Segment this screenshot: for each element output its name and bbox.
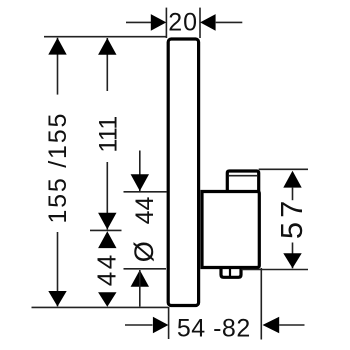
- svg-text:44: 44: [92, 252, 122, 286]
- dim 44 (lower chain): bottom arrow: [98, 292, 116, 307]
- svg-text:57: 57: [274, 197, 309, 239]
- extension line handle bottom, right side: [242, 269, 309, 271]
- bottom dim 54-82: left extension line: [168, 307, 170, 339]
- bottom dim 54-82: left tail: [125, 324, 153, 326]
- short tick at handle centre (chain junction): [90, 229, 122, 231]
- dim 111: top arrow: [98, 38, 116, 55]
- svg-text:20: 20: [168, 9, 198, 37]
- dim Ø44: upper arrow (points down): [131, 174, 149, 191]
- dim 111: bottom arrow: [98, 213, 116, 230]
- top dim 20: right tail: [216, 21, 243, 23]
- bottom dim 54-82: right tail: [279, 324, 304, 326]
- select button on top of handle: [227, 171, 258, 192]
- notch divider: [229, 268, 231, 278]
- dim 155/155: line upper segment: [57, 38, 59, 95]
- dim 155/155: top arrow: [48, 38, 66, 55]
- dim 57: upper arrow (points up): [283, 171, 301, 188]
- dim 155/155: line lower segment: [57, 232, 59, 306]
- svg-text:155 /155: 155 /155: [44, 112, 72, 224]
- extension line select button top, right side: [259, 168, 308, 170]
- extension line top-left (plate top): [44, 36, 167, 38]
- dim 57: upper segment: [292, 187, 294, 200]
- bottom dim 54-82: right extension line: [260, 268, 262, 340]
- dim 111: line mid segment: [106, 162, 108, 230]
- dim Ø44: lower tail: [139, 270, 141, 307]
- top dim 20: left extension line: [165, 8, 167, 38]
- wall plate (side view): [168, 39, 198, 306]
- extension line handle bottom, left of plate: [124, 268, 167, 270]
- dim 57: lower segment: [292, 243, 294, 269]
- extension line handle top, left of plate: [124, 191, 168, 193]
- bottom dim 54-82: right arrow: [263, 317, 280, 334]
- svg-text:44: 44: [131, 197, 159, 225]
- svg-text:111: 111: [94, 116, 122, 153]
- top dim 20: right arrow: [200, 14, 216, 31]
- svg-text:Ø: Ø: [129, 241, 159, 262]
- dim Ø44: lower arrow (points up): [131, 270, 149, 287]
- top dim 20: right extension line: [199, 8, 201, 38]
- dim 155/155: bottom arrow: [48, 291, 66, 307]
- select button inner line: [229, 175, 257, 177]
- top dim 20: left arrow: [151, 14, 167, 31]
- dim 44 (lower chain): top arrow: [98, 231, 116, 248]
- dim Ø44: upper tail: [139, 151, 141, 192]
- dim 111: line upper segment: [106, 38, 108, 91]
- top dim 20: left tail: [126, 21, 151, 23]
- dim 57: lower arrow (points down): [283, 253, 301, 268]
- extension line bottom-left (plate bottom): [32, 306, 169, 308]
- svg-text:54 -82: 54 -82: [177, 314, 251, 342]
- bottom dim 54-82: left arrow: [153, 317, 169, 334]
- handle body: [202, 192, 259, 268]
- bottom notch (tab): [221, 268, 241, 278]
